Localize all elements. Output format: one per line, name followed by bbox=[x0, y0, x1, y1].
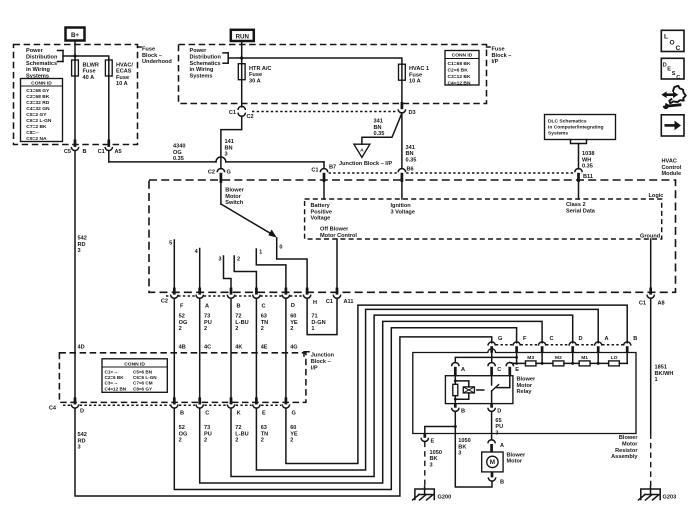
switch contact 5 to pin F bbox=[173, 240, 175, 288]
svg-text:A8: A8 bbox=[658, 301, 665, 307]
svg-text:4B: 4B bbox=[179, 345, 186, 351]
svg-text:C6=6 L-GN: C6=6 L-GN bbox=[133, 375, 157, 380]
connector pin C5-B underhood fuse block bbox=[74, 76, 76, 140]
svg-text:40 A: 40 A bbox=[83, 75, 95, 81]
label Fuse Block - I/P bbox=[487, 47, 512, 66]
svg-text:73: 73 bbox=[204, 425, 210, 431]
solid box Blower Motor Resistor Assembly with hop over pin G wire bbox=[413, 349, 636, 434]
svg-text:O: O bbox=[670, 39, 675, 46]
svg-text:HVAC/: HVAC/ bbox=[116, 62, 133, 68]
svg-text:65: 65 bbox=[495, 418, 501, 424]
dashed box Fuse Block - I/P bbox=[179, 45, 487, 104]
svg-text:Blower: Blower bbox=[619, 435, 638, 441]
svg-text:M2: M2 bbox=[555, 355, 562, 361]
svg-text:52: 52 bbox=[179, 425, 185, 431]
connector pin C1-A5 underhood fuse block bbox=[108, 76, 110, 140]
svg-text:F: F bbox=[180, 304, 184, 310]
relay switch arm bbox=[492, 385, 499, 391]
relay switch common from pin C bbox=[491, 376, 493, 385]
svg-text:341: 341 bbox=[406, 145, 415, 151]
svg-text:Control: Control bbox=[662, 165, 682, 171]
wire 63 TN 2 pin C to junction 4E bbox=[255, 298, 257, 397]
svg-text:CONN ID: CONN ID bbox=[31, 80, 52, 86]
wire 4340 OG 0.35 from A5 to module pin B7 with hop over 141 BN bbox=[108, 151, 110, 162]
assembly pin G bbox=[488, 342, 495, 346]
fuse BLWR 40 A bbox=[72, 60, 79, 76]
svg-text:3: 3 bbox=[225, 152, 228, 158]
connector pin C2-G blower switch feed bbox=[217, 168, 224, 172]
blower motor pin A bbox=[488, 440, 495, 444]
svg-text:3: 3 bbox=[218, 256, 221, 262]
switch contact 2 to pin C bbox=[234, 256, 256, 288]
connector pin D3 below HVAC 1 fuse bbox=[401, 80, 403, 102]
svg-text:WH: WH bbox=[582, 157, 591, 163]
svg-text:2: 2 bbox=[235, 326, 238, 332]
bracket from note to RUN wire bbox=[223, 52, 228, 54]
junction block pass-through triangle A bbox=[354, 144, 370, 157]
svg-text:YE: YE bbox=[290, 320, 298, 326]
svg-text:Motor: Motor bbox=[517, 383, 533, 389]
svg-text:BLWR: BLWR bbox=[83, 62, 99, 68]
svg-text:Relay: Relay bbox=[517, 389, 533, 395]
svg-text:C2=6 BK: C2=6 BK bbox=[105, 375, 125, 380]
box Blower Motor Relay bbox=[445, 376, 513, 404]
wire 1851 BK/WH 1 from pin A8 to ground bbox=[650, 298, 652, 433]
svg-text:3: 3 bbox=[458, 451, 461, 457]
svg-text:Class 2: Class 2 bbox=[566, 202, 586, 208]
svg-text:C9=2 NA: C9=2 NA bbox=[26, 136, 47, 142]
svg-text:2: 2 bbox=[204, 326, 207, 332]
svg-text:D-GN: D-GN bbox=[311, 320, 325, 326]
junction block lower dashed pin line bbox=[63, 404, 70, 406]
assembly pin A bbox=[595, 342, 602, 346]
svg-text:Systems: Systems bbox=[548, 131, 568, 137]
svg-text:Assembly: Assembly bbox=[611, 454, 638, 460]
svg-text:1: 1 bbox=[655, 377, 658, 383]
svg-text:10 A: 10 A bbox=[116, 81, 128, 87]
node junction on B+ wire bbox=[73, 54, 76, 57]
wire 52 OG 2 junction B to resistor assembly pin F bbox=[174, 328, 516, 490]
svg-text:A5: A5 bbox=[115, 149, 122, 155]
assembly pin C bbox=[538, 342, 545, 346]
svg-text:C3= --: C3= -- bbox=[105, 381, 118, 386]
svg-text:Battery: Battery bbox=[311, 203, 331, 209]
svg-text:Resistor: Resistor bbox=[615, 448, 638, 454]
svg-text:C: C bbox=[676, 75, 680, 81]
svg-text:C2: C2 bbox=[247, 114, 254, 120]
junction pin E bbox=[255, 397, 258, 404]
svg-text:C1: C1 bbox=[229, 110, 236, 116]
svg-text:OG: OG bbox=[173, 150, 182, 156]
wire pin G to relay common bbox=[491, 353, 493, 363]
svg-text:4C: 4C bbox=[204, 345, 211, 351]
svg-text:RUN: RUN bbox=[236, 33, 250, 40]
wire 542 RD 3 from C5-B through junction 4D bbox=[74, 151, 76, 398]
svg-text:2: 2 bbox=[204, 438, 207, 444]
battery feed terminal B+ bbox=[66, 28, 85, 41]
svg-text:D3: D3 bbox=[409, 110, 416, 116]
resistor M1 bbox=[579, 361, 590, 366]
svg-text:4G: 4G bbox=[290, 345, 297, 351]
dashed box HVAC Control Module bbox=[149, 180, 676, 292]
svg-text:CONN ID: CONN ID bbox=[124, 361, 145, 367]
connector pin B6 ignition 3 input bbox=[398, 169, 405, 173]
svg-text:M3: M3 bbox=[527, 355, 534, 361]
node ground collect junction bbox=[454, 425, 457, 428]
CONN ID table junction block bbox=[102, 359, 167, 393]
svg-text:71: 71 bbox=[311, 314, 317, 320]
svg-text:52: 52 bbox=[179, 314, 185, 320]
svg-text:C1: C1 bbox=[98, 149, 105, 155]
svg-text:Power: Power bbox=[26, 48, 44, 54]
svg-text:Systems: Systems bbox=[190, 73, 213, 79]
svg-text:73: 73 bbox=[204, 314, 210, 320]
svg-text:C1= --: C1= -- bbox=[105, 369, 118, 374]
svg-text:Off Blower: Off Blower bbox=[320, 227, 349, 233]
svg-text:PU: PU bbox=[495, 424, 503, 430]
svg-text:B: B bbox=[83, 149, 87, 155]
dotted junction block line lower bbox=[329, 172, 398, 174]
resistor M2 bbox=[553, 361, 564, 366]
svg-text:10 A: 10 A bbox=[409, 79, 421, 85]
connector pin B11 class 2 serial data input bbox=[575, 168, 582, 172]
svg-text:DLC Schematics: DLC Schematics bbox=[548, 119, 587, 125]
svg-text:A: A bbox=[605, 336, 609, 342]
svg-text:in Wiring: in Wiring bbox=[190, 67, 214, 73]
svg-text:0.35: 0.35 bbox=[582, 164, 593, 170]
wire 60 YE 2 pin D to junction 4G bbox=[285, 298, 287, 397]
wire ground collect to assembly pin E bbox=[425, 427, 456, 434]
svg-text:H: H bbox=[313, 300, 317, 306]
wire RUN node to HVAC 1 fuse bbox=[242, 58, 402, 64]
wire pin F to resistor chain node bbox=[516, 353, 518, 364]
svg-text:Schematics: Schematics bbox=[26, 61, 57, 67]
wire 542 RD 3 junction D to resistor assembly pin G bbox=[75, 337, 492, 496]
svg-text:C2: C2 bbox=[208, 170, 215, 176]
svg-text:RD: RD bbox=[78, 438, 86, 444]
junction pin K bbox=[230, 397, 233, 404]
svg-text:S: S bbox=[672, 71, 676, 77]
node junction on RUN wire bbox=[240, 56, 243, 59]
ignition feed terminal RUN bbox=[231, 30, 254, 41]
svg-text:Switch: Switch bbox=[225, 200, 244, 206]
svg-text:HVAC: HVAC bbox=[662, 159, 677, 165]
relay mechanical link dash bbox=[477, 389, 484, 391]
svg-text:1050: 1050 bbox=[430, 450, 442, 456]
relay pin D output bbox=[490, 404, 493, 408]
svg-text:B: B bbox=[500, 480, 504, 486]
svg-text:D: D bbox=[80, 408, 84, 414]
svg-text:Fuse: Fuse bbox=[492, 47, 505, 53]
in-line connector C1-C2 below HTR A/C fuse bbox=[241, 80, 243, 107]
svg-text:HTR A/C: HTR A/C bbox=[249, 66, 271, 72]
svg-text:60: 60 bbox=[290, 314, 296, 320]
svg-text:Fuse: Fuse bbox=[116, 75, 129, 81]
CONN ID table underhood fuse block bbox=[21, 79, 63, 143]
svg-text:D: D bbox=[497, 409, 501, 415]
svg-text:A: A bbox=[461, 367, 465, 373]
svg-text:0.35: 0.35 bbox=[173, 156, 184, 162]
svg-text:4: 4 bbox=[195, 249, 199, 255]
svg-text:Junction Block – I/P: Junction Block – I/P bbox=[339, 161, 392, 167]
wire 141 BN 3 from C2 to blower switch pin G bbox=[221, 116, 242, 169]
svg-text:BN: BN bbox=[225, 145, 233, 151]
svg-text:OG: OG bbox=[179, 320, 188, 326]
svg-text:L-BU: L-BU bbox=[235, 320, 248, 326]
svg-text:OG: OG bbox=[179, 431, 188, 437]
svg-text:E: E bbox=[262, 410, 266, 416]
svg-text:BN: BN bbox=[374, 125, 382, 131]
svg-text:TN: TN bbox=[261, 320, 268, 326]
svg-text:E: E bbox=[431, 438, 435, 444]
svg-text:A: A bbox=[500, 443, 504, 449]
svg-text:3 Voltage: 3 Voltage bbox=[391, 209, 415, 215]
wire 1851 dashed segment bbox=[650, 433, 652, 486]
svg-text:A: A bbox=[360, 147, 364, 153]
module pin B bbox=[230, 288, 233, 295]
svg-text:Fuse: Fuse bbox=[83, 69, 96, 75]
svg-text:Motor: Motor bbox=[225, 194, 241, 200]
relay pin C contact from assembly pin G bbox=[488, 363, 495, 367]
svg-text:PU: PU bbox=[204, 431, 212, 437]
svg-text:CONN ID: CONN ID bbox=[452, 53, 473, 59]
svg-text:HVAC 1: HVAC 1 bbox=[409, 66, 429, 72]
svg-text:BK: BK bbox=[458, 444, 466, 450]
svg-text:A11: A11 bbox=[344, 299, 354, 305]
wire from B+ into underhood fuse block bbox=[74, 41, 76, 61]
dashed box Fuse Block - Underhood bbox=[14, 45, 138, 145]
svg-text:C3=32 RD: C3=32 RD bbox=[26, 100, 49, 106]
svg-text:C: C bbox=[497, 367, 501, 373]
svg-text:D: D bbox=[579, 336, 583, 342]
svg-text:Logic: Logic bbox=[649, 193, 664, 199]
svg-text:G203: G203 bbox=[663, 495, 677, 501]
svg-text:C1: C1 bbox=[326, 299, 333, 305]
resistor assembly connector dashed pin line bbox=[496, 344, 513, 346]
svg-text:M: M bbox=[490, 459, 495, 466]
module connector C2 dashed pin line bbox=[166, 295, 170, 297]
wire 65 PU 3 relay D to blower motor A bbox=[491, 411, 493, 440]
resistor LO bbox=[609, 361, 620, 366]
wire B7 to logic box bbox=[323, 182, 325, 199]
wire 341 BN 0.35 from D3 to junction block triangle A bbox=[362, 113, 402, 144]
svg-text:1038: 1038 bbox=[582, 151, 594, 157]
svg-text:M1: M1 bbox=[581, 355, 588, 361]
svg-text:C3=12 BK: C3=12 BK bbox=[448, 74, 471, 80]
svg-text:Voltage: Voltage bbox=[311, 216, 331, 222]
wire RUN down to HTR A/C fuse bbox=[241, 41, 243, 64]
assembly pin D bbox=[569, 342, 576, 346]
svg-text:A: A bbox=[205, 304, 209, 310]
svg-text:3: 3 bbox=[495, 431, 498, 437]
svg-text:63: 63 bbox=[261, 314, 267, 320]
svg-text:Block –: Block – bbox=[311, 359, 331, 365]
label Junction Block - I/P (box) bbox=[304, 352, 335, 372]
svg-text:B7: B7 bbox=[329, 165, 336, 171]
svg-text:B: B bbox=[461, 409, 465, 415]
svg-text:2: 2 bbox=[261, 438, 264, 444]
svg-text:542: 542 bbox=[78, 432, 87, 438]
wire 52 OG 2 pin F to junction 4B bbox=[173, 298, 175, 397]
junction pin B bbox=[173, 397, 176, 404]
svg-text:542: 542 bbox=[78, 236, 87, 242]
icon DESC box bbox=[661, 58, 684, 81]
wire 1050 BK 3 dashed to ground G200 bbox=[424, 442, 426, 486]
relay pin B coil ground bbox=[454, 404, 457, 408]
bracket below DLC box bbox=[571, 140, 587, 144]
wire motor ground return to relay B bbox=[455, 411, 492, 487]
svg-text:C4=12 BN: C4=12 BN bbox=[105, 386, 127, 391]
svg-text:C2: C2 bbox=[161, 299, 168, 305]
svg-text:G: G bbox=[227, 170, 231, 176]
resistor M3 bbox=[525, 361, 536, 366]
svg-text:1050: 1050 bbox=[458, 438, 470, 444]
icon diagnostic tools bbox=[661, 86, 686, 109]
svg-text:in Computer/Integrating: in Computer/Integrating bbox=[548, 125, 603, 131]
module pin A8 bbox=[649, 288, 652, 295]
svg-text:B+: B+ bbox=[71, 32, 79, 39]
svg-text:B: B bbox=[237, 304, 241, 310]
svg-text:2: 2 bbox=[179, 438, 182, 444]
svg-text:Underhood: Underhood bbox=[142, 59, 172, 65]
switch contact 0 to pin H bbox=[277, 238, 307, 288]
wire 341 BN 0.35 from D3 to pin B6 bbox=[401, 113, 403, 169]
svg-text:C: C bbox=[262, 304, 266, 310]
svg-text:BK: BK bbox=[430, 456, 438, 462]
svg-text:Block –: Block – bbox=[142, 53, 162, 59]
fuse HTR A/C 30 A bbox=[238, 64, 245, 80]
wire 73 PU 2 pin A to junction 4C bbox=[199, 298, 201, 397]
svg-text:C2=68 BK: C2=68 BK bbox=[26, 94, 49, 100]
wire B6 to logic box bbox=[401, 182, 403, 199]
svg-text:C7=2 BK: C7=2 BK bbox=[26, 124, 47, 130]
svg-text:G200: G200 bbox=[438, 495, 452, 501]
svg-text:4D: 4D bbox=[78, 345, 85, 351]
svg-text:C: C bbox=[205, 410, 209, 416]
wire pin C to chain tap M3/M2 bbox=[541, 353, 543, 364]
assembly pin F bbox=[513, 342, 520, 346]
wire B+ node to HVAC/ECAS fuse bbox=[75, 56, 109, 60]
svg-text:Fuse: Fuse bbox=[409, 72, 422, 78]
module pin C bbox=[255, 288, 258, 295]
svg-text:C1=68 GY: C1=68 GY bbox=[26, 88, 50, 94]
fuse HVAC/ECAS 10 A bbox=[105, 60, 112, 76]
svg-text:1: 1 bbox=[259, 249, 262, 255]
svg-text:Blower: Blower bbox=[507, 452, 526, 458]
svg-text:0.35: 0.35 bbox=[406, 157, 417, 163]
svg-text:C5=2 GY: C5=2 GY bbox=[26, 112, 47, 118]
bracket from note to B+ wire bbox=[58, 50, 64, 52]
svg-text:Fuse: Fuse bbox=[249, 72, 262, 78]
svg-text:2: 2 bbox=[261, 326, 264, 332]
svg-text:B6: B6 bbox=[407, 167, 414, 173]
svg-text:1: 1 bbox=[311, 326, 314, 332]
svg-text:2: 2 bbox=[179, 326, 182, 332]
svg-text:BK/WH: BK/WH bbox=[655, 371, 674, 377]
svg-text:1851: 1851 bbox=[655, 365, 667, 371]
fuse HVAC 1 10 A bbox=[399, 64, 406, 80]
wire 71 D-GN 1 pin H to pin A11 bbox=[307, 298, 337, 334]
motor symbol M bbox=[487, 456, 498, 467]
svg-text:C5: C5 bbox=[64, 149, 71, 155]
svg-text:I/P: I/P bbox=[311, 365, 318, 371]
module pin A bbox=[198, 288, 201, 295]
switch contact 1 to pin D bbox=[256, 249, 286, 288]
svg-text:D: D bbox=[291, 303, 295, 309]
svg-text:I/P: I/P bbox=[492, 59, 499, 65]
svg-text:C1=68 BK: C1=68 BK bbox=[448, 61, 471, 67]
module pin D bbox=[285, 288, 288, 295]
relay pin E to resistor chain bbox=[506, 363, 513, 367]
svg-text:B: B bbox=[633, 336, 637, 342]
svg-text:Serial Data: Serial Data bbox=[566, 209, 596, 215]
svg-text:in Wiring: in Wiring bbox=[26, 67, 50, 73]
wire 73 PU 2 junction C to resistor assembly pin C bbox=[200, 321, 542, 483]
svg-text:PU: PU bbox=[204, 320, 212, 326]
svg-text:Module: Module bbox=[662, 171, 682, 177]
svg-text:C1: C1 bbox=[311, 168, 318, 174]
relay output to pin D bbox=[491, 391, 493, 404]
wire 1038 WH 0.35 from DLC to pin B11 bbox=[578, 144, 580, 169]
svg-text:C8=6 GY: C8=6 GY bbox=[133, 386, 152, 391]
relay coil resistor branch bbox=[454, 376, 456, 385]
module pin F bbox=[173, 288, 176, 295]
svg-text:C6=2 L-GN: C6=2 L-GN bbox=[26, 118, 52, 124]
svg-text:C8=--: C8=-- bbox=[26, 130, 39, 136]
svg-text:Blower: Blower bbox=[517, 377, 536, 383]
svg-text:3: 3 bbox=[430, 463, 433, 469]
svg-text:341: 341 bbox=[374, 119, 383, 125]
dashed box Logic bbox=[305, 199, 662, 239]
svg-text:2: 2 bbox=[290, 438, 293, 444]
wire 72 L-BU 2 pin B to junction 4K bbox=[230, 298, 232, 397]
wire 72 L-BU 2 junction K to resistor assembly pin D bbox=[231, 315, 573, 476]
svg-text:RD: RD bbox=[78, 242, 86, 248]
svg-text:Positive: Positive bbox=[311, 209, 332, 215]
dashed box Junction Block - I/P bbox=[59, 353, 306, 403]
module pin H bbox=[306, 288, 309, 295]
svg-text:Power: Power bbox=[190, 48, 208, 54]
assembly pin B bbox=[624, 342, 631, 346]
relay pin A coil feed bbox=[452, 363, 459, 367]
svg-text:Motor: Motor bbox=[507, 459, 523, 465]
svg-text:B11: B11 bbox=[583, 174, 593, 180]
label Fuse Block - Underhood bbox=[138, 47, 173, 66]
svg-text:30 A: 30 A bbox=[249, 78, 261, 84]
svg-text:72: 72 bbox=[235, 314, 241, 320]
wire 63 TN 2 junction E to resistor assembly pin A bbox=[256, 309, 598, 470]
svg-text:Distribution: Distribution bbox=[26, 55, 58, 61]
CONN ID table I/P fuse block bbox=[445, 51, 479, 87]
svg-text:4E: 4E bbox=[261, 345, 268, 351]
svg-text:141: 141 bbox=[225, 139, 234, 145]
svg-text:2: 2 bbox=[237, 256, 240, 262]
svg-text:3: 3 bbox=[78, 248, 81, 254]
svg-text:C1: C1 bbox=[639, 301, 646, 307]
svg-text:B: B bbox=[180, 410, 184, 416]
svg-text:G: G bbox=[498, 336, 502, 342]
relay coil winding symbol bbox=[455, 381, 469, 387]
svg-text:63: 63 bbox=[261, 425, 267, 431]
svg-text:Junction: Junction bbox=[311, 353, 335, 359]
svg-text:Distribution: Distribution bbox=[190, 55, 222, 61]
svg-text:BN: BN bbox=[406, 151, 414, 157]
relay switch fixed contact from pin E bbox=[497, 376, 510, 388]
svg-text:Block –: Block – bbox=[492, 53, 512, 59]
svg-text:Schematics: Schematics bbox=[190, 61, 221, 67]
switch contact 4 to pin A bbox=[199, 249, 201, 288]
svg-text:F: F bbox=[523, 336, 527, 342]
